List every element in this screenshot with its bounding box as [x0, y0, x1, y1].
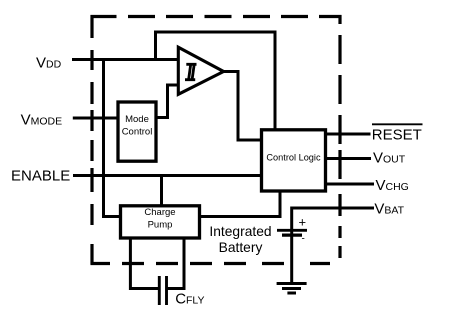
capacitor CFLY plates [159, 276, 166, 305]
wire battery stem [290, 207, 293, 285]
IC boundary dashed box: bottom edge [91, 262, 331, 265]
svg-text:RESET: RESET [372, 126, 422, 143]
svg-text:V: V [376, 177, 386, 194]
wire VDD branch down to charge pump [104, 58, 122, 217]
label VCHG [376, 177, 409, 194]
wire VOUT [326, 157, 372, 160]
label VOUT [373, 150, 406, 167]
svg-text:Control: Control [122, 126, 153, 137]
block Mode Control [118, 102, 156, 161]
block Control Logic [262, 130, 326, 191]
label RESET with overline [372, 124, 423, 143]
svg-text:V: V [373, 150, 383, 167]
IC boundary dashed box: left edge [90, 15, 93, 265]
label battery minus sign [302, 234, 305, 245]
IC boundary dashed box: top edge [91, 15, 342, 18]
wire VBAT [292, 207, 374, 210]
wire ENABLE branch down to charge pump top [160, 176, 163, 207]
svg-text:-: - [302, 234, 305, 245]
wire VDD sense loop to control logic top [156, 32, 276, 130]
svg-text:CHG: CHG [386, 181, 409, 193]
label Mode Control text [122, 114, 153, 137]
wire mode control to comparator lower input [156, 85, 178, 118]
svg-text:V: V [36, 55, 46, 72]
block Charge Pump [121, 206, 200, 238]
label VDD [36, 55, 62, 72]
label VMODE [21, 112, 63, 129]
label battery plus sign [299, 215, 307, 230]
wire VMODE to mode control [73, 117, 118, 120]
svg-text:DD: DD [46, 59, 62, 71]
battery plate positive (long) [277, 229, 307, 232]
wire charge pump bottom-right leg to CFLY [167, 238, 184, 289]
label Charge Pump text [144, 207, 175, 230]
wire charge pump bottom-left leg to CFLY [130, 238, 158, 289]
svg-text:V: V [374, 201, 384, 218]
svg-text:OUT: OUT [383, 154, 406, 166]
label CFLY [175, 291, 204, 308]
op-amp comparator U1 triangle [178, 47, 223, 94]
svg-text:Mode: Mode [125, 114, 149, 125]
label Control Logic text [266, 153, 321, 163]
battery plate negative (short thick) [282, 234, 302, 237]
comparator hysteresis symbol [185, 64, 197, 79]
svg-text:Integrated: Integrated [209, 224, 271, 239]
svg-text:FLY: FLY [186, 295, 204, 307]
ground symbol [277, 284, 307, 294]
IC boundary dashed box: right edge [338, 15, 341, 258]
wire VDD horizontal to comparator input [72, 58, 178, 61]
wire ENABLE to control logic [73, 174, 262, 177]
svg-text:Pump: Pump [148, 219, 173, 230]
label ENABLE [11, 168, 70, 185]
svg-text:V: V [21, 112, 31, 129]
svg-text:Control Logic: Control Logic [266, 153, 321, 163]
svg-text:+: + [299, 215, 307, 230]
svg-text:ENABLE: ENABLE [11, 168, 70, 185]
svg-text:C: C [175, 291, 186, 308]
svg-text:MODE: MODE [31, 116, 62, 128]
wire comparator output to control logic [224, 72, 262, 141]
svg-text:Battery: Battery [219, 240, 263, 255]
svg-text:Charge: Charge [144, 207, 175, 218]
wire control logic bottom to charge pump right [200, 191, 281, 217]
label VBAT [374, 201, 404, 218]
wire RESET [326, 133, 371, 136]
svg-text:BAT: BAT [384, 205, 404, 217]
wire VCHG [326, 183, 375, 186]
label Integrated Battery [209, 224, 271, 255]
